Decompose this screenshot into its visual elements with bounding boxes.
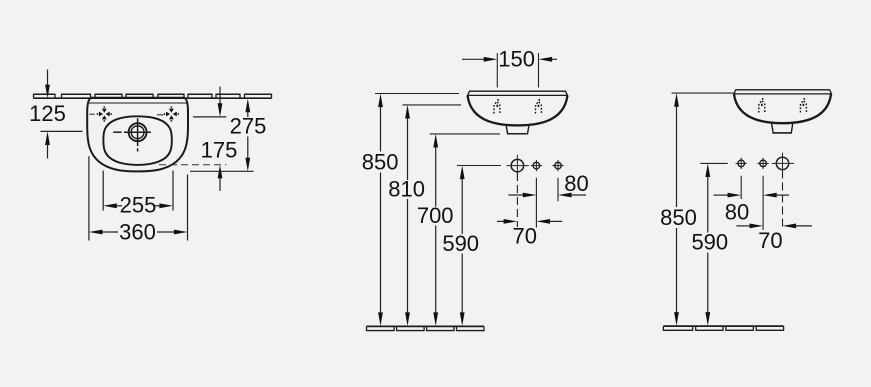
RIGHT VIEW (side view) [660,90,831,331]
dim 850 top extension line [375,93,459,95]
dim 275 upper arrow [245,99,250,113]
basin rim bar side [734,90,832,94]
svg-text:125: 125 [29,101,66,126]
dim 125 extension line at faucet center [41,130,83,132]
MIDDLE VIEW (front view) [362,46,589,331]
dim 175 lower arrow [218,165,223,179]
dim 175 vertical line with down arrow [219,87,221,108]
fixing hole large with crosshair [511,159,523,171]
fixing hole small 1 [533,162,540,169]
svg-text:255: 255 [120,193,157,218]
dim 700 vertical line [433,134,438,148]
drain outlet side [772,124,793,133]
LEFT VIEW (top view) [29,70,271,245]
dim 150 extension lines [496,53,498,88]
dim 125 lower arrow [45,131,50,145]
dim 255 extension lines [102,171,104,211]
svg-text:70: 70 [758,228,782,253]
dim 590 top extension line (holes row) [457,165,501,167]
svg-text:850: 850 [362,150,399,175]
dim 810 top extension line [402,104,461,106]
svg-text:150: 150 [498,46,535,71]
svg-text:700: 700 [417,203,454,228]
dim 150 line with arrows [462,58,484,60]
fixing hole small 2 [555,162,562,169]
dim 810 vertical line [405,105,410,119]
drain outlet front [506,126,529,134]
dim 80 line with arrows [714,194,729,196]
svg-text:590: 590 [691,230,728,255]
basin bowl side profile [734,94,831,123]
basin rim bar front [468,91,568,95]
floor band [663,326,783,331]
svg-text:810: 810 [388,177,425,202]
dim 590 vertical line [705,163,710,177]
faucet centerlines [113,118,151,151]
dim 80 line with arrows [508,194,523,196]
dim 360 line with arrows [89,230,103,235]
dim 850 vertical line [674,93,679,107]
svg-text:275: 275 [230,114,267,139]
dim 850 vertical line [378,94,383,108]
dim 70 line with arrows [736,225,749,227]
short centerline dashes beside tap marks [90,113,95,115]
dashed centerline below large hole [516,173,518,227]
bowl bottom dashed extension line [159,164,226,166]
basin bottom extension line [190,170,254,172]
svg-text:80: 80 [725,199,749,224]
dim 590 extension line (holes row) [700,162,728,164]
dim 590 vertical line [460,166,465,180]
inner bowl [103,116,171,165]
svg-text:80: 80 [564,171,588,196]
svg-text:360: 360 [119,219,156,244]
tap hole mark left (dotted arch) [494,102,500,114]
dim 70 line with arrows [497,220,505,222]
line below hole small 1 [740,176,742,199]
tap hole mark right (dotted arch) [800,101,806,113]
dim 700 top extension line (drain bottom) [430,133,500,135]
svg-text:850: 850 [660,205,697,230]
line below hole small 1 [535,178,537,228]
line below hole small 2 [762,176,764,230]
tap hole mark right (dotted arch) [535,102,541,114]
fixing hole small 2 [760,160,767,167]
svg-text:175: 175 [201,138,238,163]
wall section band [34,94,272,99]
dim 275 lower segment with arrow [247,137,249,159]
basin outline top view [87,98,188,172]
dim 360 extension lines [88,156,90,240]
tap hole mark right [166,109,177,120]
svg-text:70: 70 [513,223,537,248]
dim 850 top extension line [672,92,735,94]
fixing hole small 1 [738,160,745,167]
floor band [367,326,485,331]
svg-text:590: 590 [442,231,479,256]
dim 175 extension line at tap center [193,116,226,118]
dashed centerline below large hole [782,171,784,231]
line below hole small 2 [557,178,559,201]
dim 125 line top [47,70,49,94]
basin bowl front profile [468,96,568,126]
basin rim inner line [89,102,187,104]
faucet hole circle outer [129,123,147,141]
dim 255 line with arrows [103,203,117,208]
tap hole mark left (dotted arch) [759,101,765,113]
tap hole mark left [99,109,110,120]
fixing hole large with crosshair [776,157,788,169]
faucet hole circle inner [131,126,144,139]
